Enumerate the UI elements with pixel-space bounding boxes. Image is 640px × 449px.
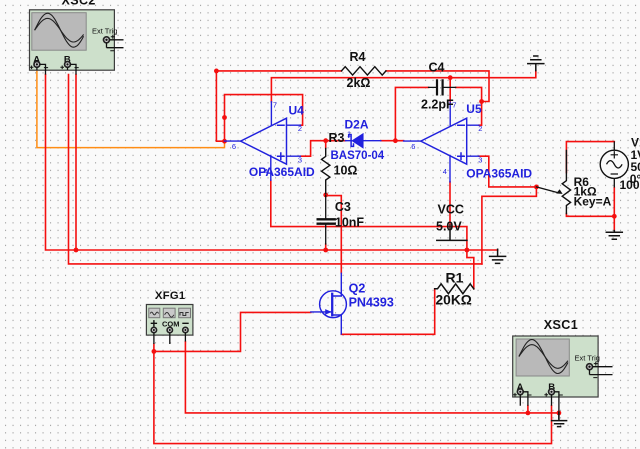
wiper arrowhead xyxy=(556,189,562,194)
svg-text:XSC2: XSC2 xyxy=(62,0,96,8)
potentiometer R6 wiper arrow xyxy=(536,187,557,193)
transistor Q2 gate arrow xyxy=(325,309,331,315)
wire red: U4 output node up to R4 top line xyxy=(216,71,224,141)
svg-text:BAS70-04: BAS70-04 xyxy=(331,150,385,162)
wire red: XSC2 B- down to line9 xyxy=(75,75,77,250)
diode D2A body xyxy=(352,134,363,148)
svg-text:6: 6 xyxy=(232,142,236,151)
svg-text:C4: C4 xyxy=(429,61,445,75)
wire red: R6 bottom to V1 bottom and ground xyxy=(566,188,614,231)
svg-text:Key=A: Key=A xyxy=(574,195,612,209)
wire red: line9 junction jog down to R1 right lead xyxy=(467,250,474,289)
svg-text:OPA365AID: OPA365AID xyxy=(249,165,315,179)
resistor R4 xyxy=(342,67,386,75)
wire red: D2A right stub to U5 output xyxy=(381,140,404,142)
op-amp U4 pins xyxy=(225,102,301,181)
svg-text:XSC1: XSC1 xyxy=(544,318,579,332)
wire red: R6 top lead wire xyxy=(566,142,614,173)
resistor R6 (potentiometer body) xyxy=(562,151,570,214)
wire red: C4 right lead down to U5 pin2 node xyxy=(456,87,482,125)
op-amp U4 triangle xyxy=(241,118,287,164)
wire red: U5 pin4 down to VCC xyxy=(449,182,451,224)
svg-text:2kΩ: 2kΩ xyxy=(347,76,371,90)
wire red: XFG1 - to XSC1 A- and B-/ground line xyxy=(185,342,559,413)
wire red: XFG1 + down to bottom line to XSC1 B+ xyxy=(154,351,552,443)
node dot XSC1 B- xyxy=(557,411,562,416)
svg-text:10Ω: 10Ω xyxy=(334,164,358,178)
node dot R6 wiper xyxy=(534,185,539,190)
wire red: gnd top line from U4 pin7 to top-right ground xyxy=(271,71,535,102)
op-amp U4 +/- marks xyxy=(278,125,284,159)
node dot R4 corner xyxy=(214,69,219,74)
wire red: U5 pin7 up to gnd line xyxy=(449,78,451,103)
resistor R3 xyxy=(322,148,330,193)
node dot R3 top xyxy=(323,138,328,143)
transistor Q2 drain/source/gate xyxy=(311,273,342,334)
oscilloscope XSC1 xyxy=(513,336,613,419)
svg-text:Ext Trig: Ext Trig xyxy=(575,354,600,363)
diode D2A stubs xyxy=(346,140,381,142)
svg-text:C3: C3 xyxy=(335,200,351,214)
wire red: wiper node down and left to gnd vertical xyxy=(482,187,537,264)
node dot V1 bottom xyxy=(612,214,617,219)
wire red: U5 pin3 to R6 wiper node xyxy=(479,156,536,187)
svg-text:VCC: VCC xyxy=(438,203,464,217)
svg-text:1: 1 xyxy=(347,130,351,139)
wire red: C3 bottom to line9 xyxy=(325,244,327,250)
wire red: XSC2 A- down to ground bus line9 xyxy=(46,75,482,250)
node dot U5 pin7 at gnd line xyxy=(448,75,453,80)
wire red: U5 output node up to C4 left lead xyxy=(395,87,428,140)
resistor R1 xyxy=(435,284,474,294)
svg-text:Ext Trig: Ext Trig xyxy=(92,27,117,36)
svg-text:R4: R4 xyxy=(350,50,366,64)
svg-text:2: 2 xyxy=(298,124,302,133)
svg-text:6: 6 xyxy=(411,142,415,151)
ground top-right (inverted) xyxy=(528,56,544,71)
op-amp U5 pins xyxy=(404,102,479,182)
node dot C3 bottom on line9 xyxy=(323,248,328,253)
wire orange: XSC2 A+ to U4 output node xyxy=(37,70,225,148)
ground under V1 xyxy=(606,231,622,240)
node dot feedback mid xyxy=(222,115,227,120)
svg-text:7: 7 xyxy=(273,101,277,110)
wire red: gnd vertical to mid-right ground stub xyxy=(482,249,498,251)
wire red: R4 top feedback line left part xyxy=(216,70,341,72)
op-amp U5 +/- marks xyxy=(458,125,464,159)
ground under XSC1 B- xyxy=(552,413,567,427)
node dot U5 pin2 net xyxy=(479,99,484,104)
source V1 xyxy=(600,141,628,187)
wire red: U4 pin4 down and right to line9 (line8) xyxy=(271,180,467,250)
wire red: U4 feedback from output node to pin2 xyxy=(225,95,303,142)
svg-text:2.2pF: 2.2pF xyxy=(421,98,454,112)
wire red: R3 bottom to C3 top junction xyxy=(325,194,327,196)
wire red: XFG1 + to Q2 gate xyxy=(154,312,311,351)
wire red: XSC1 A- short xyxy=(527,406,529,413)
svg-text:5.0V: 5.0V xyxy=(436,220,462,234)
diode D2A schottky bar xyxy=(349,135,354,147)
wire red: R3 top short xyxy=(325,141,327,149)
svg-text:XFG1: XFG1 xyxy=(155,290,185,302)
VCC power symbol xyxy=(437,225,467,240)
function generator XFG1 xyxy=(146,305,193,345)
svg-text:R3: R3 xyxy=(329,131,345,145)
svg-text:3: 3 xyxy=(478,155,482,164)
svg-text:U5: U5 xyxy=(466,102,482,116)
capacitor C4 xyxy=(429,86,456,88)
wire red: R4 top feedback line right part down to U5 pin2 xyxy=(386,71,489,102)
svg-text:2: 2 xyxy=(478,124,482,133)
node dot R1 branch on line9 xyxy=(465,248,470,253)
svg-text:100 %: 100 % xyxy=(620,178,640,192)
node dot U5 output xyxy=(393,138,398,143)
svg-text:Q2: Q2 xyxy=(349,281,366,295)
node dot XSC1 A- xyxy=(526,411,531,416)
svg-text:20KΩ: 20KΩ xyxy=(436,293,472,308)
op-amp U5 triangle xyxy=(421,118,467,164)
node dot XFG1 plus xyxy=(152,349,157,354)
svg-text:3: 3 xyxy=(298,155,302,164)
svg-text:10nF: 10nF xyxy=(335,215,365,229)
node dot B- on line9 xyxy=(74,248,79,253)
svg-text:4: 4 xyxy=(264,167,268,176)
svg-text:OPA365AID: OPA365AID xyxy=(466,167,532,181)
svg-text:U4: U4 xyxy=(289,104,305,118)
svg-text:4: 4 xyxy=(443,167,447,176)
transistor Q2 circle xyxy=(320,291,347,318)
svg-text:7: 7 xyxy=(452,101,456,110)
ground mid-right xyxy=(490,249,506,263)
svg-text:PN4393: PN4393 xyxy=(349,295,394,309)
svg-text:R1: R1 xyxy=(446,269,464,285)
node dot U4 output xyxy=(222,139,227,144)
node dot C3 top xyxy=(323,193,328,198)
transistor Q2 channel bar xyxy=(331,294,333,315)
capacitor C3 xyxy=(325,196,327,244)
oscilloscope XSC2 xyxy=(30,10,124,75)
wire red: C3 top junction jog to Q2 drain xyxy=(326,196,342,274)
wire red: R1 left lead down to Q2 source line xyxy=(341,289,434,335)
wire red: XSC2 B+ down to line10 xyxy=(69,75,482,264)
wire red: U4 pin3 jog to R3 top / D2A line xyxy=(300,141,345,157)
